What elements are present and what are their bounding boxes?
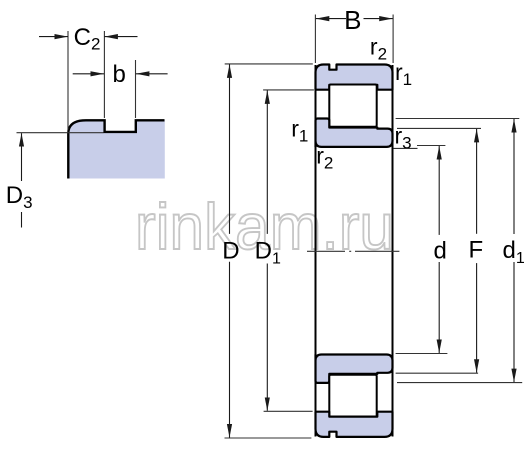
- roller top section: [329, 85, 376, 127]
- outer ring bottom section fill: [316, 412, 393, 437]
- dimension b arrows: [73, 73, 168, 75]
- svg-text:B: B: [344, 5, 361, 35]
- svg-text:d: d: [434, 238, 447, 265]
- svg-text:D3: D3: [6, 182, 33, 212]
- dimension D3 extension line: [17, 132, 104, 134]
- svg-text:F: F: [469, 237, 484, 264]
- centerline axis: [307, 250, 399, 252]
- outer ring top section fill: [316, 65, 393, 90]
- face line right: [392, 65, 394, 437]
- face line left: [315, 65, 317, 437]
- ring outline (top and left): [68, 120, 164, 178]
- inner ring top section fill: [316, 119, 393, 147]
- svg-text:r1: r1: [395, 59, 412, 89]
- svg-text:D: D: [222, 238, 239, 265]
- ring cross-section fill: [68, 120, 165, 178]
- dimension b extension line: [135, 60, 137, 118]
- svg-text:C2: C2: [74, 24, 101, 54]
- svg-text:d1: d1: [503, 237, 525, 267]
- svg-text:r2: r2: [370, 34, 387, 64]
- svg-text:r1: r1: [291, 116, 308, 146]
- inner ring bottom section fill: [316, 355, 393, 383]
- dimension C2 arrows: [39, 36, 138, 38]
- dimension D3 arrow line: [21, 133, 23, 227]
- roller bottom section: [329, 375, 376, 417]
- dimension C2 extension lines: [68, 31, 104, 130]
- svg-text:b: b: [113, 61, 126, 88]
